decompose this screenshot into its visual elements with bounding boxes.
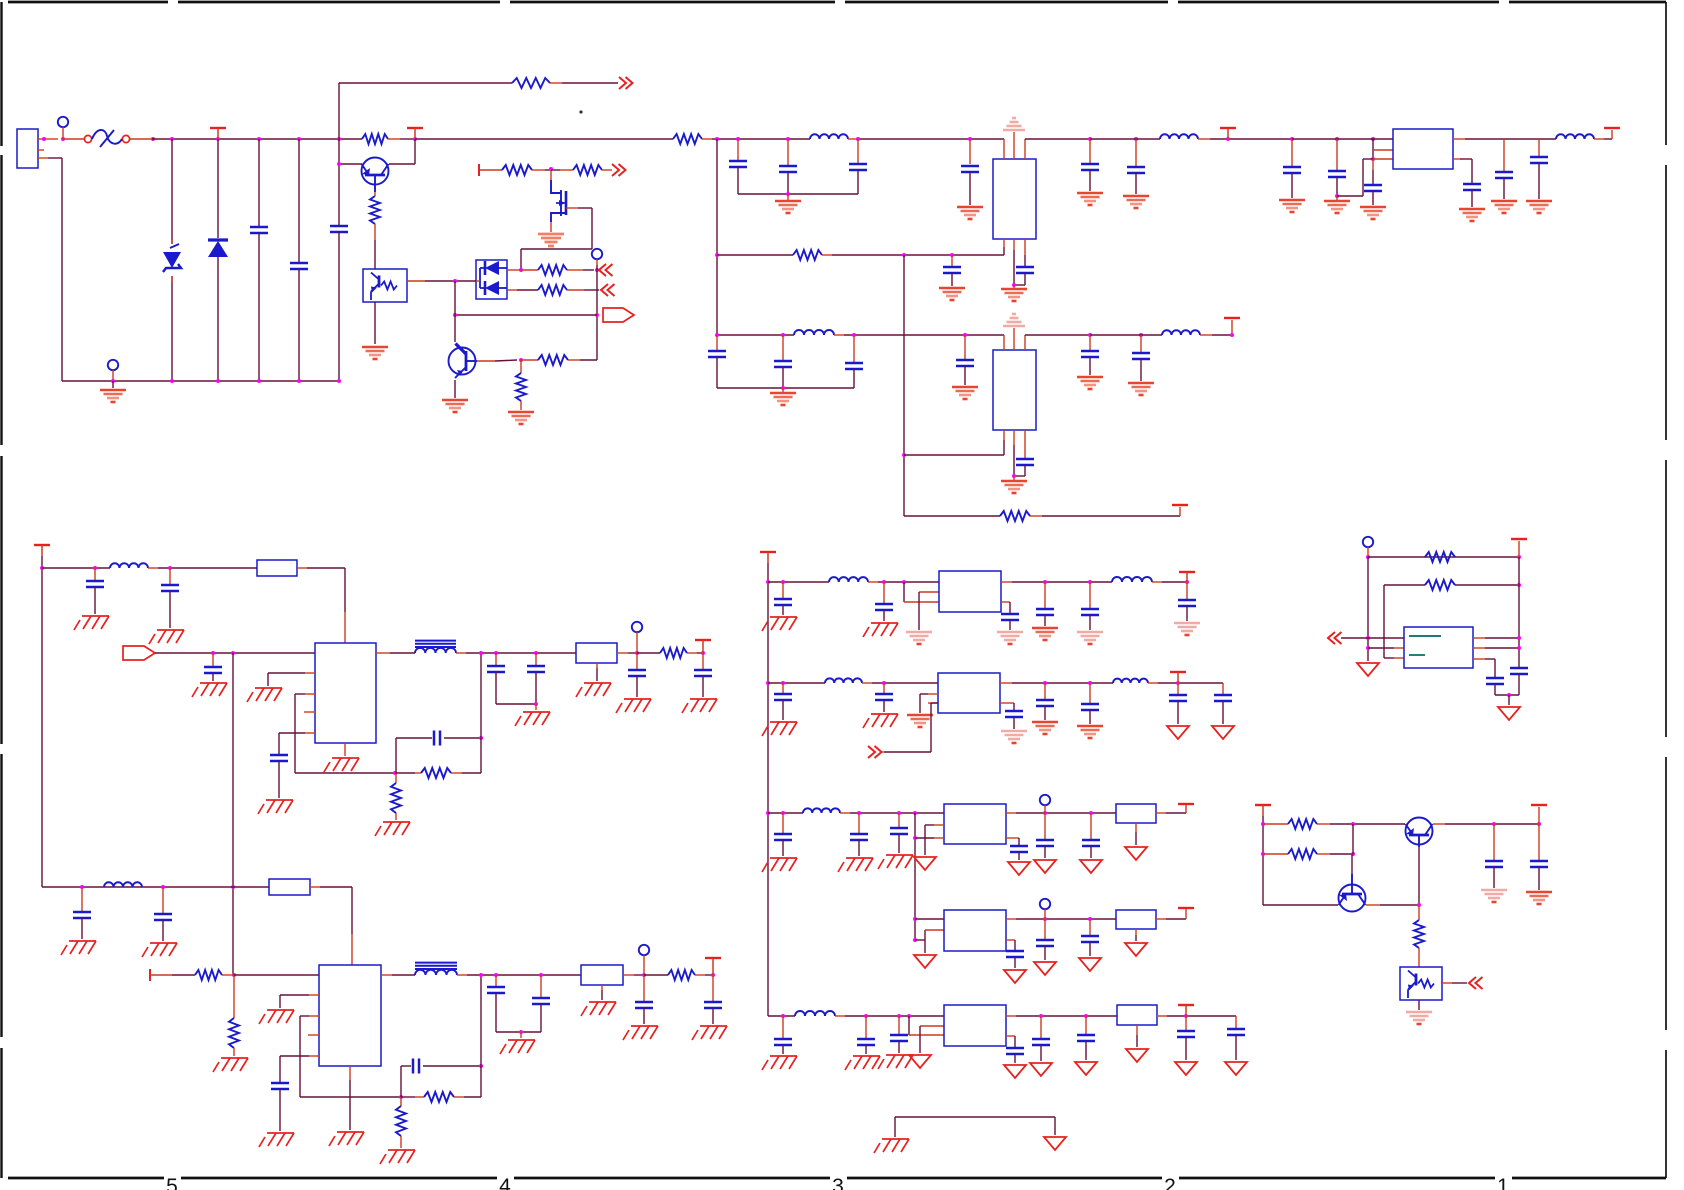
svg-text:2: 2: [1164, 1175, 1176, 1190]
svg-text:3: 3: [832, 1175, 844, 1190]
svg-text:1: 1: [1497, 1175, 1509, 1190]
svg-text:4: 4: [499, 1175, 511, 1190]
svg-text:5: 5: [166, 1175, 178, 1190]
